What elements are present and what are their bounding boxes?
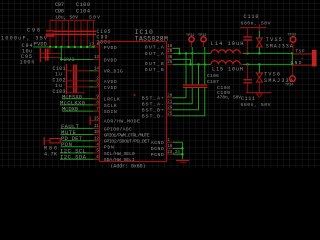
wire PVDD net	[33, 46, 99, 48]
capacitor C111	[241, 64, 271, 108]
capacitor C97 lead	[55, 20, 57, 47]
wire OUT_A pin19 corner	[173, 48, 180, 53]
wire ADR pin connect	[91, 120, 94, 122]
test point TP34	[285, 64, 295, 87]
pin stubs right side	[167, 48, 173, 154]
wire to connector pin 1	[293, 53, 312, 55]
wire DGND	[173, 147, 183, 149]
svg-text:C104: C104	[76, 8, 90, 14]
wire VR_DIG row red	[66, 70, 89, 72]
capacitor bank plates	[54, 31, 97, 32]
TVS diode TVS5	[256, 31, 292, 53]
connector X speaker terminal	[312, 50, 317, 67]
capacitor C96 electrolytic	[46, 20, 55, 47]
capacitor C98 lead	[61, 20, 63, 47]
capacitor bank C97 C98 C100 C104 labels	[55, 2, 100, 21]
svg-text:OUT_A: OUT_A	[145, 51, 164, 57]
capacitor C94 C95 labels	[20, 43, 35, 66]
junction dots GND	[181, 147, 183, 155]
node 3V3 vertical	[60, 47, 62, 60]
svg-text:C106: C106	[207, 73, 219, 79]
svg-text:ADR/HW_MODE: ADR/HW_MODE	[104, 119, 140, 125]
svg-text:BST_A+: BST_A+	[142, 96, 164, 102]
wire 3V3 net to DVDD	[61, 59, 99, 61]
wire bootstrap drop A2	[191, 53, 193, 84]
svg-text:PVDD: PVDD	[34, 41, 47, 47]
svg-text:TP34: TP34	[285, 83, 293, 87]
wire OUT_B pin30 corner	[173, 59, 191, 64]
svg-text:BST_A-: BST_A-	[142, 102, 164, 108]
svg-text:C97: C97	[55, 2, 64, 8]
wire OUT_A filtered	[243, 52, 292, 54]
svg-text:470n, 50V: 470n, 50V	[217, 94, 241, 100]
capacitor C99 lead	[86, 20, 88, 47]
wire PDN net	[61, 146, 100, 148]
svg-text:TVS5: TVS5	[266, 37, 282, 43]
svg-text:AGND: AGND	[151, 140, 164, 146]
svg-text:OUT_B: OUT_B	[145, 67, 164, 73]
svg-text:11: 11	[94, 125, 100, 129]
svg-text:SMAJ33A: SMAJ33A	[266, 43, 293, 49]
wire McFSX0 net	[62, 98, 100, 100]
capacitor C110	[241, 14, 271, 54]
capacitor C101/C102/C103 plates	[73, 65, 75, 94]
capacitor C94/C95 plates	[45, 49, 47, 61]
capacitor C105 lead	[80, 20, 82, 47]
wire tie between rows	[291, 53, 293, 64]
wire L14 right lead	[240, 52, 243, 54]
svg-text:SDIN: SDIN	[104, 109, 117, 115]
inductor L14	[211, 41, 244, 53]
svg-text:OUT_B: OUT_B	[145, 61, 164, 67]
wire CVDD row green	[89, 86, 99, 88]
capacitor C101 C102 C103 labels	[53, 66, 66, 95]
svg-text:10: 10	[94, 131, 100, 135]
svg-text:PDN: PDN	[104, 145, 114, 151]
svg-text:680n, 50V: 680n, 50V	[241, 20, 271, 26]
test point TP33	[288, 33, 296, 53]
wire PGND	[173, 153, 183, 155]
wire AGND to ground	[173, 142, 183, 159]
svg-text:680n, 50V: 680n, 50V	[241, 102, 271, 108]
svg-text:4.7K: 4.7K	[44, 152, 57, 158]
ground symbol below rail	[256, 94, 262, 97]
svg-text:100n: 100n	[20, 60, 35, 66]
junction dots filtered rows	[246, 52, 293, 65]
wire GND rail bottom	[246, 92, 271, 94]
wire bootstrap nested L4	[173, 88, 205, 116]
svg-text:14: 14	[94, 68, 100, 72]
test point TP32	[198, 34, 206, 64]
svg-text:SCL/HW_SEL0: SCL/HW_SEL0	[104, 151, 135, 157]
inductor L15	[211, 61, 243, 73]
wire bootstrap drop B1	[198, 64, 200, 84]
wire MUTE net	[61, 134, 100, 136]
svg-text:L15 10uH: L15 10uH	[212, 66, 243, 72]
svg-text:25: 25	[167, 113, 173, 117]
svg-text:McDX0: McDX0	[62, 106, 79, 113]
pin stubs left side	[93, 47, 99, 159]
svg-text:GPIO0/ADC: GPIO0/ADC	[104, 126, 132, 132]
pin numbers right side	[167, 45, 180, 155]
svg-text:19: 19	[167, 45, 173, 49]
wire McCLKX0 net	[60, 104, 100, 106]
test point TP31	[186, 34, 194, 53]
capacitor bank lead 7	[93, 20, 95, 47]
wire AVDD row red	[66, 80, 89, 82]
wire OUT_A row	[173, 52, 211, 54]
TVS diode TVS6	[256, 64, 293, 92]
svg-text:OUT_A: OUT_A	[145, 44, 164, 50]
svg-text:CVDD: CVDD	[104, 85, 117, 91]
svg-text:C98: C98	[55, 8, 64, 14]
svg-text:DGND: DGND	[151, 146, 164, 152]
svg-text:C107: C107	[207, 79, 219, 85]
wire GND rail top	[240, 27, 266, 29]
svg-text:29: 29	[167, 107, 173, 111]
svg-text:28: 28	[167, 95, 173, 99]
pin names right side	[142, 44, 164, 158]
capacitor C105 C99 labels	[97, 29, 111, 46]
capacitor C100 lead	[68, 20, 70, 47]
wire bootstrap nested L3	[173, 88, 199, 110]
svg-text:21: 21	[167, 101, 173, 105]
wire bootstrap nested L1	[173, 88, 186, 98]
svg-text:SCLK: SCLK	[104, 103, 117, 109]
svg-text:20: 20	[167, 50, 173, 54]
capacitor C104 lead	[74, 20, 76, 47]
svg-text:(Addr: 0x60): (Addr: 0x60)	[111, 163, 146, 168]
svg-text:BST_B+: BST_B+	[142, 108, 164, 114]
wire C95 row	[41, 57, 61, 59]
svg-text:26: 26	[167, 61, 173, 65]
svg-text:L14 10uH: L14 10uH	[211, 41, 244, 47]
wire C103 row red	[66, 92, 85, 94]
svg-text:12: 12	[94, 137, 100, 141]
pin numbers left side	[89, 44, 100, 160]
junction dot 3V3	[60, 58, 62, 60]
supply bar at ADR pin	[90, 116, 91, 125]
svg-text:LRCLK: LRCLK	[104, 97, 120, 103]
junction marker small	[302, 58, 304, 60]
svg-text:C100: C100	[76, 2, 90, 8]
wire CVDD row red	[66, 86, 89, 88]
svg-text:17,4: 17,4	[89, 44, 100, 48]
supply bar left of C101 group	[66, 64, 67, 94]
wire I2C_SDA net	[60, 158, 100, 160]
svg-text:TVS6: TVS6	[264, 72, 280, 78]
wire OUT_B filtered	[243, 63, 292, 65]
svg-text:SDA/HW_SEL1: SDA/HW_SEL1	[104, 157, 135, 163]
wire bootstrap nested L2	[173, 88, 193, 104]
junction dots on PVDD	[49, 46, 95, 48]
svg-text:16: 16	[167, 145, 173, 149]
wire I2C_SCL net	[60, 152, 100, 154]
supply bar left of C94/C95	[40, 48, 41, 62]
svg-text:13: 13	[94, 56, 100, 60]
svg-text:PGND: PGND	[151, 152, 164, 158]
wire AVDD row green	[89, 80, 99, 82]
wire FAULT net	[61, 127, 100, 129]
wire PVDD drop to C94	[49, 47, 51, 54]
junction dots OUT rows	[178, 52, 206, 65]
wire L15 right lead	[240, 63, 243, 65]
svg-text:BST_B-: BST_B-	[142, 114, 164, 120]
svg-text:TAS5828M: TAS5828M	[135, 36, 168, 43]
wire bootstrap drop A1	[185, 53, 187, 84]
pin names left side	[104, 45, 150, 163]
wire McDX0 net	[62, 110, 100, 112]
ground symbol bottom	[176, 159, 189, 164]
origin cross marker IC10	[133, 94, 136, 97]
wire top rail of capacitor bank	[50, 19, 95, 21]
svg-text:15: 15	[94, 117, 100, 121]
op-amp IC10 box outline	[100, 42, 167, 162]
svg-text:PVDD: PVDD	[104, 45, 117, 51]
wire to connector pin 2	[293, 64, 312, 66]
wire PD_DET net	[62, 140, 100, 142]
svg-text:VR_DIG: VR_DIG	[104, 69, 123, 75]
wire C94 row	[41, 53, 61, 55]
svg-text:C111: C111	[241, 96, 255, 102]
resistor R86	[44, 137, 62, 157]
wire VR_DIG row green	[89, 70, 99, 72]
wire OUT_B row	[173, 63, 211, 65]
wire bootstrap drop B2	[204, 64, 206, 84]
svg-text:C110: C110	[244, 14, 259, 20]
svg-text:30: 30	[167, 56, 173, 60]
svg-text:DVDD: DVDD	[104, 57, 117, 63]
capacitor C106-C109 bootstrap bank plates	[183, 84, 207, 85]
svg-text:C96: C96	[27, 28, 40, 34]
svg-text:AVDD: AVDD	[104, 79, 117, 85]
ground stub above rail	[258, 24, 260, 31]
svg-text:GPIO1/PWM_CTRL/MUTE: GPIO1/PWM_CTRL/MUTE	[104, 132, 150, 138]
svg-text:GPIO2/SDOUT/PD_DET: GPIO2/SDOUT/PD_DET	[104, 139, 150, 145]
